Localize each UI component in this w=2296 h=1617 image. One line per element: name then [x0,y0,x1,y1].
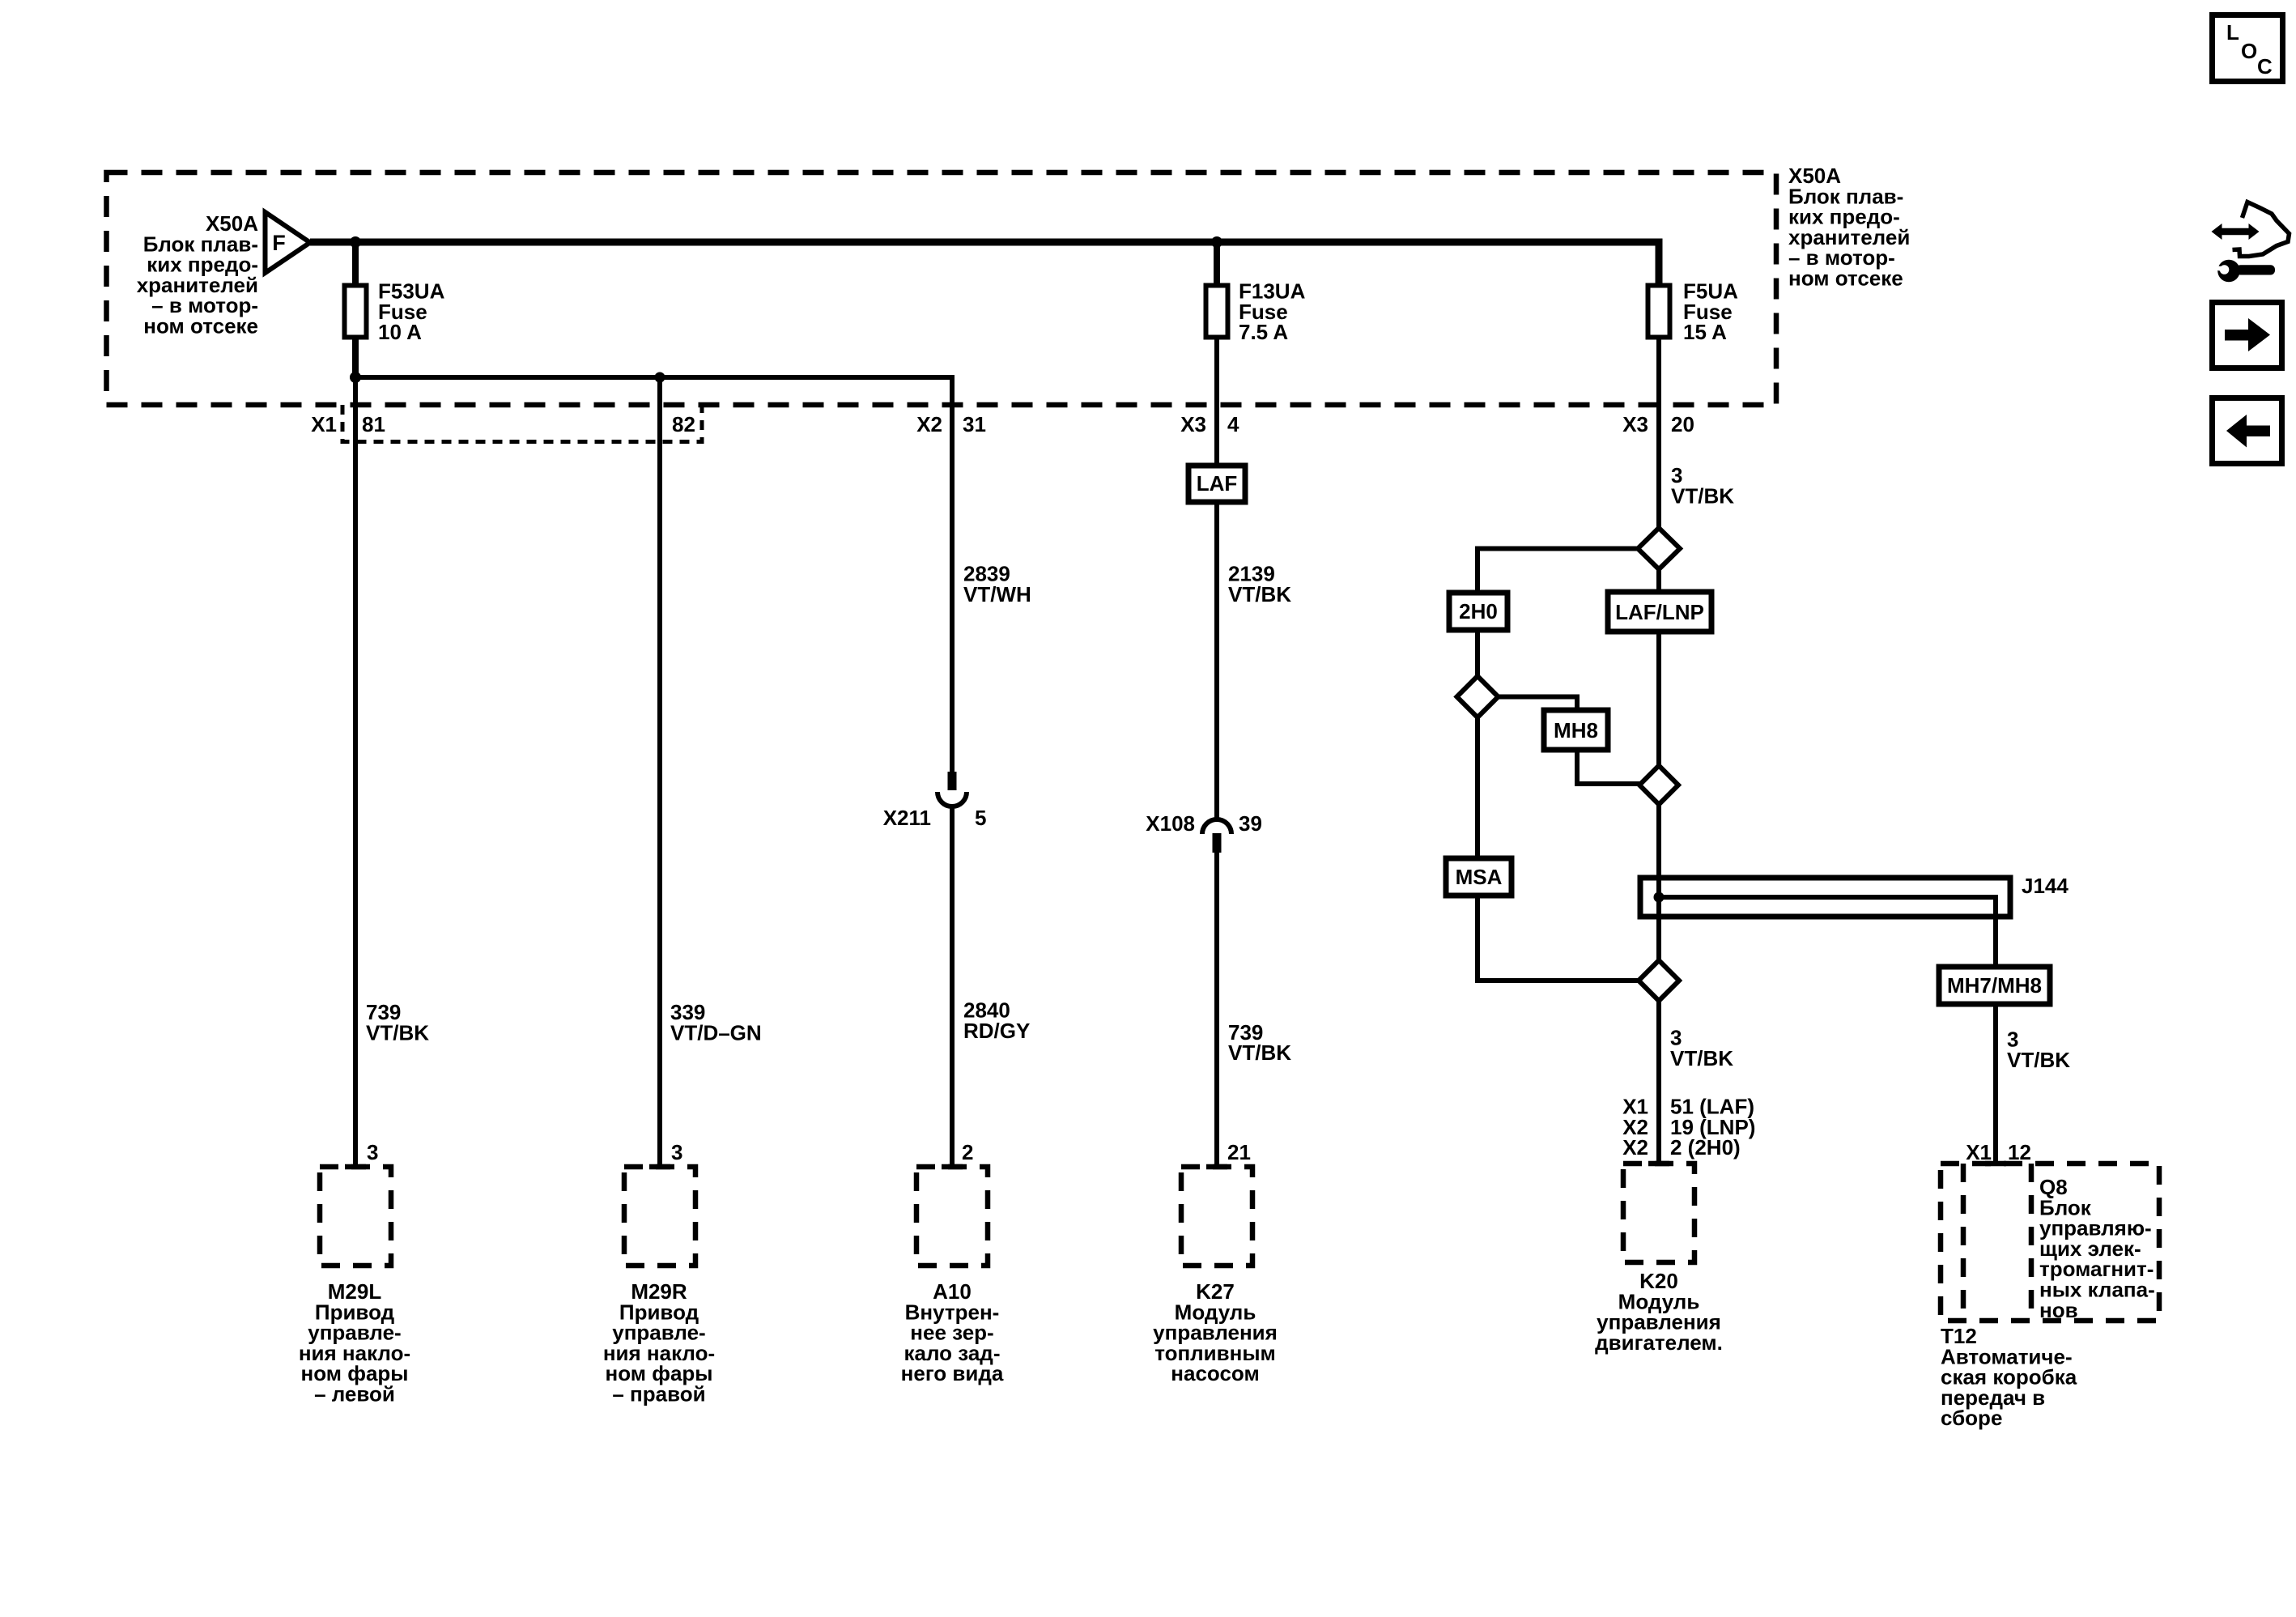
splice diamond S1 [1638,528,1680,569]
wire: fuse F53UA to second bus [352,339,359,377]
wire: LAF/LNP down to diamond S3 [1656,632,1661,766]
svg-text:X3: X3 [1622,412,1648,436]
svg-text:– правой: – правой [612,1382,705,1406]
connector X211 pin 5 (inline) [883,772,987,830]
wire terminal at A10 [942,1164,963,1170]
svg-text:VT/D–GN: VT/D–GN [670,1020,762,1045]
component T12 label [1941,1324,2077,1430]
wire: X211 down to A10 [950,806,955,1167]
wire label 739 VT/BK (left headlamp) [366,1000,429,1045]
junction node below F53UA [350,372,361,383]
wire label 2840 RD/GY [963,998,1030,1043]
svg-text:5: 5 [975,806,986,830]
component M29R label [603,1279,715,1406]
wire: fuse F13UA down to LAF box [1214,339,1219,466]
fuse F53UA [345,279,445,345]
power feed triangle F [266,212,311,273]
wire label 3 VT/BK (top) [1671,463,1734,508]
svg-text:X108: X108 [1146,811,1195,836]
pin label X1 | 12 (T12) [1966,1140,2031,1164]
junction node inside J144 [1654,892,1665,903]
svg-text:39: 39 [1239,811,1262,836]
svg-text:X3: X3 [1180,412,1206,436]
wire: pin 81 down to M29L [353,377,358,1167]
wire: pin 82 down to M29R [657,377,662,1167]
component K27 dashed box [1181,1167,1252,1266]
svg-text:X2: X2 [1622,1135,1648,1160]
forward arrow box [2213,303,2282,368]
component T12 outer dashed box [1941,1164,2159,1321]
svg-text:VT/BK: VT/BK [1671,483,1734,508]
wire: diamond S1 down to LAF/LNP [1656,569,1661,592]
wire label 339 VT/D-GN [670,1000,762,1045]
wire: diamond S4 down to K20 [1656,1001,1661,1164]
svg-text:F: F [272,231,286,255]
component A10 dashed box [916,1167,988,1266]
svg-text:12: 12 [2008,1140,2031,1164]
svg-text:X2: X2 [916,412,942,436]
svg-text:L: L [2226,20,2239,45]
splice pack LAF [1188,466,1245,502]
splice diamond S4 [1639,960,1679,1001]
svg-text:него вида: него вида [901,1361,1004,1385]
svg-text:насосом: насосом [1171,1361,1259,1385]
wire: fuse F5UA down to diamond splice S1 [1656,339,1661,529]
splice pack LAF/LNP [1608,592,1711,632]
wire terminal at K20 [1648,1161,1669,1167]
junction node at pin 82 branch [655,372,665,383]
wire: bus down to fuse F53UA [352,242,359,285]
component M29L dashed box [320,1167,391,1266]
svg-text:двигателем.: двигателем. [1595,1330,1723,1355]
backward arrow box [2213,398,2282,464]
fuse F5UA [1648,279,1739,345]
wire: MSA down and right to diamond S4 [1478,896,1639,981]
svg-text:ном отсеке: ном отсеке [143,314,258,338]
svg-text:MSA: MSA [1456,865,1503,889]
junction node at F53UA tap [350,236,361,248]
svg-text:X1: X1 [1966,1140,1992,1164]
svg-text:VT/BK: VT/BK [1670,1046,1733,1070]
svg-text:2: 2 [962,1140,973,1164]
svg-text:10 A: 10 A [378,320,422,344]
component K20 label [1595,1269,1723,1355]
vehicle service icon (car + double arrow + wrench) [2212,202,2290,283]
component K27 label [1153,1279,1278,1385]
component Q8 label [2039,1175,2155,1322]
svg-text:X1: X1 [311,412,337,436]
component Q8 inner dashed box edges [1961,1164,1966,1321]
wire terminal at M29L [345,1164,366,1170]
wire: main bus from triangle across top, corner down to F5UA [310,242,1659,285]
pin label X3 | 4 [1180,412,1239,436]
wire: MH8 down and right to diamond S3 [1577,750,1639,784]
wire label 2839 VT/WH [963,562,1031,606]
svg-text:2H0: 2H0 [1459,599,1498,623]
fuse F13UA [1206,279,1306,345]
svg-text:J144: J144 [2022,874,2069,898]
component A10 label [901,1279,1004,1385]
component M29R dashed box [624,1167,695,1266]
wire terminal at T12 [1985,1161,2006,1167]
svg-text:VT/BK: VT/BK [2007,1048,2070,1072]
svg-text:– левой: – левой [314,1382,395,1406]
wire: second bus to X2 branch corner [355,377,952,772]
svg-text:31: 31 [963,412,986,436]
X50A fuse block label (left) [137,211,259,338]
wire: X108 down to K27 [1214,853,1219,1167]
svg-text:VT/WH: VT/WH [963,582,1031,606]
svg-text:82: 82 [672,412,695,436]
splice pack MSA [1446,858,1512,896]
svg-text:VT/BK: VT/BK [1228,582,1291,606]
wire: diamond S3 down through J144 to diamond S4 [1656,805,1661,961]
svg-text:X211: X211 [883,806,931,830]
svg-text:21: 21 [1227,1140,1251,1164]
wire: J144 tap right and down to MH7/MH8 [1659,897,1996,967]
svg-text:MH7/MH8: MH7/MH8 [1947,973,2042,998]
splice pack MH8 [1544,710,1608,750]
pin label X2 | 31 [916,412,986,436]
svg-text:3: 3 [671,1140,682,1164]
wire: bus down to fuse F13UA [1214,242,1220,285]
pin labels X1/X2 rows (K20) [1622,1095,1755,1160]
connector X108 pin 39 (inline) [1146,811,1262,853]
svg-text:3: 3 [367,1140,378,1164]
X50A fuse block dashed box [107,172,1777,405]
pin label X1 | 81 [311,412,385,436]
svg-text:нов: нов [2039,1298,2078,1322]
svg-text:LAF/LNP: LAF/LNP [1615,600,1704,624]
svg-text:MH8: MH8 [1554,718,1598,743]
svg-text:C: C [2257,54,2273,79]
wire: LAF box down to X108 [1214,502,1219,819]
wire label 3 VT/BK (K20) [1670,1026,1733,1070]
svg-text:VT/BK: VT/BK [1228,1040,1291,1065]
svg-text:VT/BK: VT/BK [366,1020,429,1045]
svg-text:LAF: LAF [1197,471,1238,496]
wire label 3 VT/BK (T12) [2007,1028,2070,1072]
splice diamond S3 [1639,766,1678,805]
svg-text:RD/GY: RD/GY [963,1019,1030,1043]
component K20 dashed box [1623,1164,1694,1262]
connector X1 dashed outline under pins 81/82 [342,405,702,442]
wire terminal at K27 [1206,1164,1227,1170]
svg-text:81: 81 [362,412,385,436]
svg-text:2 (2H0): 2 (2H0) [1670,1135,1741,1160]
splice pack 2H0 [1449,593,1507,630]
wire: diamond S2 down to MSA [1475,717,1480,858]
svg-text:4: 4 [1227,412,1239,436]
svg-text:O: O [2241,39,2257,63]
pin label X3 | 20 [1622,412,1694,436]
svg-text:15 A: 15 A [1683,320,1727,344]
splice diamond S2 [1457,676,1499,717]
wire terminal at M29R [649,1164,670,1170]
svg-text:7.5 A: 7.5 A [1239,320,1288,344]
junction node at F13UA tap [1211,236,1222,248]
component M29L label [299,1279,410,1406]
X50A fuse block label (right) [1788,164,1910,291]
wire label 739 VT/BK (fuel pump) [1228,1020,1291,1065]
wire label 2139 VT/BK [1228,562,1291,606]
wire: 2H0 down to diamond S2 [1475,630,1480,676]
harness connector J144 [1640,874,2069,917]
svg-text:ном отсеке: ном отсеке [1788,266,1903,291]
svg-text:20: 20 [1671,412,1694,436]
LOC reference box [2213,15,2283,82]
splice pack MH7/MH8 [1939,967,2050,1004]
wire: MH7/MH8 down to T12 [1993,1004,1998,1164]
wire: diamond S2 right to MH8 [1499,697,1578,711]
svg-text:сборе: сборе [1941,1406,2002,1430]
wire: diamond S1 left to 2H0 [1478,549,1638,594]
